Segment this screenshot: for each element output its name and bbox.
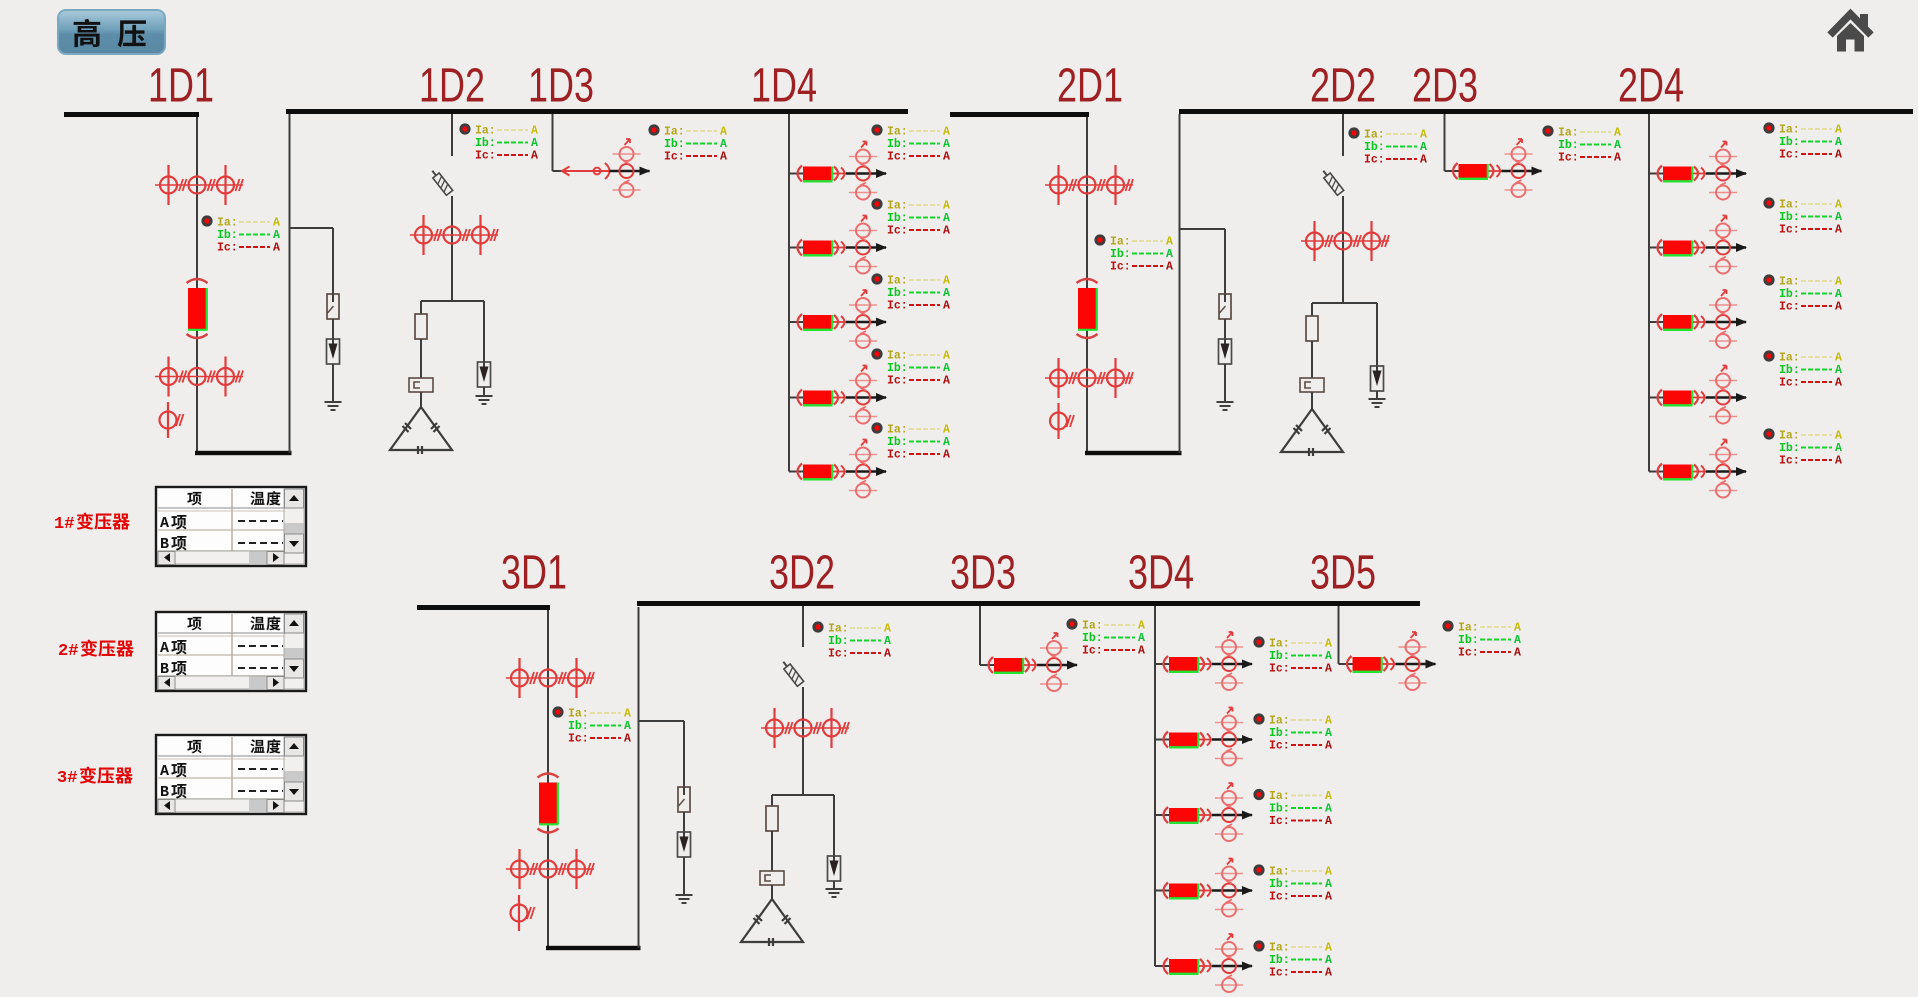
breaker 2D4-4 (closed) xyxy=(1649,390,1706,406)
svg-text:1D1: 1D1 xyxy=(148,60,214,113)
wire xyxy=(846,396,886,398)
disconnector 3D2 (open) xyxy=(780,659,804,686)
temperature table widget 1# transformer xyxy=(156,487,306,566)
wire xyxy=(1376,303,1378,366)
busbar 2D2-2D4 xyxy=(1179,109,1913,114)
svg-text:B: B xyxy=(160,784,169,801)
CT cluster 2D4-4 xyxy=(1709,366,1737,424)
PT cluster 3D1-CT1 xyxy=(506,658,594,698)
measurement block 3D4-4 (Ia/Ib/Ic) xyxy=(1253,864,1332,903)
PT cluster 3D1-CT2 xyxy=(506,849,594,889)
flow arrow 3D5 xyxy=(1426,660,1437,669)
wire xyxy=(1212,663,1252,665)
wire xyxy=(1311,341,1313,378)
disconnector 1D2 (open) xyxy=(429,168,453,195)
svg-text:3#: 3# xyxy=(57,769,77,788)
CT cluster 3D5 xyxy=(1399,632,1427,690)
measurement block 1D2 (Ia/Ib/Ic) xyxy=(459,123,538,162)
fuse base 3D2 xyxy=(760,871,784,885)
wire xyxy=(1180,228,1226,230)
wire xyxy=(451,196,453,301)
surge arrester 3D2 xyxy=(828,856,841,881)
breaker 3D1 (closed) xyxy=(538,774,559,833)
wire xyxy=(1154,606,1156,966)
breaker 2D4-1 (closed) xyxy=(1649,166,1706,182)
wire xyxy=(979,606,981,665)
wire xyxy=(420,301,422,314)
wire xyxy=(547,610,549,948)
tie flow symbol 1D3 xyxy=(562,163,615,179)
wire xyxy=(1179,114,1181,453)
wire xyxy=(846,246,886,248)
wire xyxy=(1502,170,1542,172)
breaker 3D3 (closed) xyxy=(980,657,1037,673)
wire xyxy=(421,300,484,302)
wire xyxy=(788,114,790,472)
CT cluster 1D4-4 xyxy=(849,366,877,424)
wire xyxy=(1086,117,1088,453)
breaker 1D1 (closed) xyxy=(187,279,208,338)
fuse 3D2 xyxy=(766,806,778,831)
PT cluster 1D2 xyxy=(410,215,498,255)
PT cluster 1D1-CT2 xyxy=(155,357,243,397)
svg-text:3D2: 3D2 xyxy=(769,547,835,600)
wire xyxy=(1224,229,1226,294)
flow arrow 3D3 xyxy=(1067,661,1078,670)
wire xyxy=(483,301,485,362)
wire xyxy=(332,364,334,402)
measurement block 3D4-3 (Ia/Ib/Ic) xyxy=(1253,789,1332,828)
wire xyxy=(1342,114,1344,156)
wire xyxy=(1212,889,1252,891)
wire xyxy=(1444,114,1446,171)
breaker 3D4-4 (closed) xyxy=(1155,883,1212,899)
wire xyxy=(451,114,453,156)
flow arrow 1D4-2 xyxy=(876,243,887,252)
svg-text:3D5: 3D5 xyxy=(1310,547,1376,600)
breaker 3D4-3 (closed) xyxy=(1155,807,1212,823)
wire xyxy=(833,795,835,856)
wire xyxy=(1312,302,1377,304)
wire xyxy=(1212,738,1252,740)
flow arrow 3D4-5 xyxy=(1242,962,1253,971)
svg-text:2D2: 2D2 xyxy=(1310,60,1376,113)
breaker 1D4-2 (closed) xyxy=(789,240,846,256)
breaker 2D4-3 (closed) xyxy=(1649,314,1706,330)
busbar 1D2-1D4 xyxy=(286,109,908,114)
CT cluster 2D4-3 xyxy=(1709,290,1737,348)
svg-text:2D1: 2D1 xyxy=(1057,60,1123,113)
wire xyxy=(420,392,422,407)
ground 2D1 xyxy=(1217,402,1234,410)
measurement block 3D4-2 (Ia/Ib/Ic) xyxy=(1253,713,1332,752)
wire xyxy=(1311,392,1313,409)
wire xyxy=(771,885,773,899)
measurement block 2D1 (Ia/Ib/Ic) xyxy=(1094,234,1173,273)
svg-text:1D2: 1D2 xyxy=(419,60,485,113)
switch-fuse 1D1 PT branch xyxy=(327,294,339,319)
measurement block 2D4-1 (Ia/Ib/Ic) xyxy=(1763,122,1842,161)
switch-fuse 2D1 PT branch xyxy=(1219,294,1231,319)
surge arrester 1D1 xyxy=(327,339,340,364)
wire xyxy=(1338,606,1340,664)
PT single winding 1D1 xyxy=(160,402,184,438)
measurement block 3D2 (Ia/Ib/Ic) xyxy=(812,621,891,660)
measurement block 2D4-2 (Ia/Ib/Ic) xyxy=(1763,197,1842,236)
flow arrow 1D4-5 xyxy=(876,467,887,476)
wire xyxy=(483,387,485,396)
CT cluster 1D4-2 xyxy=(849,216,877,274)
wire xyxy=(1342,196,1344,303)
breaker 3D4-5 (closed) xyxy=(1155,958,1212,974)
svg-text:B: B xyxy=(160,661,169,678)
PT cluster 2D1-CT1 xyxy=(1045,165,1133,205)
svg-text:A: A xyxy=(160,515,169,532)
flow arrow 2D4-3 xyxy=(1736,318,1747,327)
transformer link bar 2D1 xyxy=(1085,451,1182,455)
disconnector 2D2 (open) xyxy=(1320,168,1344,195)
measurement block 1D4-2 (Ia/Ib/Ic) xyxy=(871,198,950,237)
CT cluster 2D4-2 xyxy=(1709,216,1737,274)
PT single winding 2D1 xyxy=(1050,403,1074,439)
PT cluster 3D2 xyxy=(761,708,849,748)
wire xyxy=(802,606,804,647)
svg-text:2#: 2# xyxy=(58,642,78,661)
PT cluster 2D2 xyxy=(1301,221,1389,261)
transformer delta winding 2D2 xyxy=(1281,409,1343,456)
wire xyxy=(802,687,804,795)
PT cluster 1D1-CT1 xyxy=(155,165,243,205)
wire xyxy=(552,114,554,171)
breaker 3D4-1 (closed) xyxy=(1155,656,1212,672)
wire xyxy=(1376,391,1378,399)
flow arrow 1D4-3 xyxy=(876,318,887,327)
wire xyxy=(771,795,773,806)
wire xyxy=(1224,364,1226,402)
label 3#变压器 xyxy=(57,767,133,788)
wire xyxy=(1706,470,1746,472)
switch-fuse 3D1 PT branch xyxy=(678,787,690,812)
CT cluster 3D4-2 xyxy=(1215,708,1243,766)
flow arrow 2D4-2 xyxy=(1736,243,1747,252)
svg-text:1#: 1# xyxy=(54,515,74,534)
wire xyxy=(1706,246,1746,248)
breaker 3D5 (closed) xyxy=(1339,656,1396,672)
wire xyxy=(1706,396,1746,398)
wire xyxy=(1212,814,1252,816)
svg-text:1D4: 1D4 xyxy=(751,60,817,113)
flow arrow 1D4-1 xyxy=(876,169,887,178)
breaker 2D4-2 (closed) xyxy=(1649,240,1706,256)
wire xyxy=(1212,965,1252,967)
busbar 3D1 xyxy=(417,605,550,610)
breaker 1D4-1 (closed) xyxy=(789,166,846,182)
wire xyxy=(1396,663,1436,665)
flow arrow 2D4-4 xyxy=(1736,393,1747,402)
fuse base 1D2 xyxy=(409,378,433,392)
breaker 1D4-5 (closed) xyxy=(789,464,846,480)
surge arrester 3D1 xyxy=(678,832,691,857)
surge arrester 1D2 xyxy=(478,362,491,387)
CT cluster 2D4-5 xyxy=(1709,440,1737,498)
breaker 2D4-5 (closed) xyxy=(1649,464,1706,480)
surge arrester 2D1 xyxy=(1219,339,1232,364)
flow arrow 1D4-4 xyxy=(876,393,887,402)
measurement block 1D3 (Ia/Ib/Ic) xyxy=(648,124,727,163)
breaker 1D4-4 (closed) xyxy=(789,390,846,406)
temperature table widget 2# transformer xyxy=(156,612,306,691)
measurement block 1D4-4 (Ia/Ib/Ic) xyxy=(871,348,950,387)
ground 3D2 xyxy=(826,889,843,897)
flow arrow 3D4-4 xyxy=(1242,886,1253,895)
label 1#变压器 xyxy=(54,513,130,534)
wire xyxy=(639,720,685,722)
wire xyxy=(771,831,773,871)
breaker 2D3 (closed) xyxy=(1445,163,1502,179)
HV page button 高压 xyxy=(58,10,165,54)
fuse 1D2 xyxy=(415,314,427,339)
CT cluster 3D4-1 xyxy=(1215,632,1243,690)
PT cluster 2D1-CT2 xyxy=(1045,358,1133,398)
flow arrow 3D4-2 xyxy=(1242,735,1253,744)
wire xyxy=(610,170,650,172)
label 2#变压器 xyxy=(58,640,134,661)
svg-text:B: B xyxy=(160,536,169,553)
wire xyxy=(772,794,834,796)
wire xyxy=(553,170,563,172)
measurement block 3D1 (Ia/Ib/Ic) xyxy=(552,706,631,745)
temperature table widget 3# transformer xyxy=(156,735,306,814)
svg-text:A: A xyxy=(160,640,169,657)
PT single winding 3D1 xyxy=(511,895,535,931)
CT cluster 2D3 xyxy=(1505,139,1533,197)
breaker 3D4-2 (closed) xyxy=(1155,732,1212,748)
CT cluster 1D3 xyxy=(613,139,641,197)
flow arrow 3D4-1 xyxy=(1242,660,1253,669)
flow arrow 2D3 xyxy=(1532,167,1543,176)
measurement block 1D4-5 (Ia/Ib/Ic) xyxy=(871,422,950,461)
svg-text:3D1: 3D1 xyxy=(501,547,567,600)
wire xyxy=(420,339,422,378)
svg-text:2D4: 2D4 xyxy=(1618,60,1684,113)
wire xyxy=(833,881,835,889)
fuse base 2D2 xyxy=(1300,378,1324,392)
wire xyxy=(290,227,334,229)
CT cluster 1D4-1 xyxy=(849,142,877,200)
wire xyxy=(196,117,198,453)
busbar 1D1 xyxy=(64,112,199,117)
wire xyxy=(1224,319,1226,339)
wire xyxy=(1706,321,1746,323)
measurement block 2D4-3 (Ia/Ib/Ic) xyxy=(1763,274,1842,313)
wire xyxy=(846,321,886,323)
svg-text:3D3: 3D3 xyxy=(950,547,1016,600)
transformer link bar 1D1 xyxy=(195,451,292,455)
measurement block 3D5 (Ia/Ib/Ic) xyxy=(1442,620,1521,659)
wire xyxy=(683,812,685,832)
flow arrow 2D4-5 xyxy=(1736,467,1747,476)
measurement block 2D4-4 (Ia/Ib/Ic) xyxy=(1763,350,1842,389)
breaker 1D4-3 (closed) xyxy=(789,314,846,330)
measurement block 3D4-1 (Ia/Ib/Ic) xyxy=(1253,636,1332,675)
CT cluster 3D4-3 xyxy=(1215,783,1243,841)
svg-text:3D4: 3D4 xyxy=(1128,547,1194,600)
CT cluster 2D4-1 xyxy=(1709,142,1737,200)
transformer delta winding 1D2 xyxy=(390,407,452,454)
svg-text:2D3: 2D3 xyxy=(1412,60,1478,113)
CT cluster 3D4-5 xyxy=(1215,934,1243,992)
breaker 2D1 (closed) xyxy=(1077,279,1098,338)
CT cluster 1D4-5 xyxy=(849,440,877,498)
transformer delta winding 3D2 xyxy=(741,899,803,946)
flow arrow 3D4-3 xyxy=(1242,811,1253,820)
fuse 2D2 xyxy=(1306,316,1318,341)
ground 1D2 xyxy=(476,396,493,404)
svg-text:1D3: 1D3 xyxy=(528,60,594,113)
surge arrester 2D2 xyxy=(1371,366,1384,391)
svg-text:A: A xyxy=(160,763,169,780)
wire xyxy=(1706,172,1746,174)
measurement block 3D3 (Ia/Ib/Ic) xyxy=(1066,618,1145,657)
CT cluster 3D4-4 xyxy=(1215,859,1243,917)
flow arrow 2D4-1 xyxy=(1736,169,1747,178)
wire xyxy=(1037,664,1077,666)
CT cluster 3D3 xyxy=(1040,633,1068,691)
home icon xyxy=(1830,14,1871,52)
wire xyxy=(846,470,886,472)
busbar 2D1 xyxy=(950,112,1089,117)
wire xyxy=(332,319,334,339)
busbar 3D2-3D5 xyxy=(637,601,1420,606)
wire xyxy=(683,721,685,787)
ground 1D1 xyxy=(325,402,342,410)
measurement block 3D4-5 (Ia/Ib/Ic) xyxy=(1253,940,1332,979)
wire xyxy=(289,114,291,453)
measurement block 1D4-3 (Ia/Ib/Ic) xyxy=(871,273,950,312)
transformer link bar 3D1 xyxy=(546,946,641,950)
measurement block 2D3 (Ia/Ib/Ic) xyxy=(1542,125,1621,164)
wire xyxy=(1311,303,1313,316)
measurement block 2D4-5 (Ia/Ib/Ic) xyxy=(1763,428,1842,467)
wire xyxy=(638,607,640,948)
wire xyxy=(846,172,886,174)
ground 3D1 xyxy=(676,895,693,903)
flow arrow 1D3 xyxy=(640,167,651,176)
measurement block 1D1 (Ia/Ib/Ic) xyxy=(201,215,280,254)
wire xyxy=(683,857,685,895)
CT cluster 1D4-3 xyxy=(849,290,877,348)
measurement block 2D2 (Ia/Ib/Ic) xyxy=(1348,127,1427,166)
wire xyxy=(1648,114,1650,472)
ground 2D2 xyxy=(1369,399,1386,407)
measurement block 1D4-1 (Ia/Ib/Ic) xyxy=(871,124,950,163)
wire xyxy=(332,228,334,294)
